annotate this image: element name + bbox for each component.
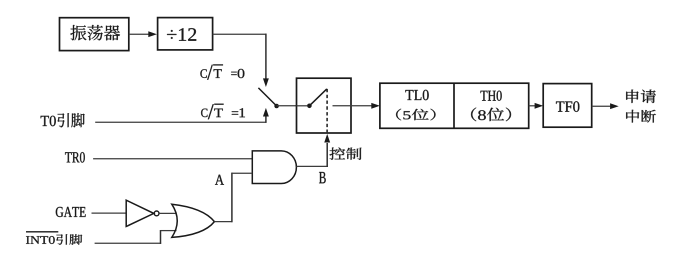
arrowhead to interrupt request — [610, 103, 619, 109]
wire TH0 to TF0 — [529, 105, 535, 107]
oscillator label 振荡器 — [70, 25, 120, 40]
wire INT0 step to OR gate — [161, 230, 177, 232]
wire AND output to B corner — [296, 165, 328, 167]
inner switch lever — [309, 89, 326, 106]
arrowhead up into control box (控制) — [324, 134, 330, 143]
label GATE — [56, 207, 86, 217]
wire T0 pin — [95, 121, 266, 123]
overline on T (C/T=1) — [214, 103, 224, 105]
label 中断 — [626, 110, 656, 123]
wire A corner to AND input — [232, 172, 252, 174]
wire divider to switch (horizontal) — [213, 33, 267, 35]
NOT gate bubble — [154, 211, 159, 216]
dashed control line — [326, 89, 328, 132]
oscillator box 振荡器 — [60, 18, 129, 51]
wire oscillator to divider — [129, 33, 149, 35]
wire inside box left — [297, 105, 308, 107]
label 1 (C/T=1) — [240, 108, 245, 117]
flag box TF0 — [543, 84, 592, 128]
wire INT0 riser — [160, 230, 162, 244]
inner switch dot — [307, 104, 312, 109]
register box TL0/TH0 — [380, 83, 529, 128]
switch lever (counter select) — [258, 88, 276, 106]
label T0引脚 — [41, 113, 85, 127]
label T (C/T=1) — [214, 109, 223, 118]
wire TR0 to AND gate — [93, 158, 252, 160]
label 0 (C/T=0) — [238, 69, 245, 78]
arrowhead into divider box — [148, 31, 157, 37]
label = (C/T=1) — [232, 111, 238, 114]
divider box ÷12 — [158, 18, 213, 50]
NOT gate triangle — [126, 200, 154, 226]
wire pivot to control box — [277, 105, 297, 107]
arrowhead into TF0 — [535, 103, 544, 109]
wire inside box right — [333, 105, 352, 107]
label / (C/T=0) — [207, 65, 213, 80]
label T (C/T=0) — [214, 69, 222, 78]
label TF0 — [556, 101, 579, 112]
label 控制 — [330, 148, 362, 160]
AND gate — [252, 151, 296, 184]
wire OR output to A corner — [214, 221, 232, 223]
label A — [215, 175, 224, 185]
wire NOT to OR gate — [159, 212, 176, 214]
overline on INT0 — [26, 231, 58, 233]
control switch box — [297, 78, 352, 133]
label INT0引脚 — [26, 234, 82, 245]
overline on T (C/T=0) — [213, 64, 223, 66]
label = (C/T=0) — [231, 72, 237, 75]
label B — [319, 172, 326, 183]
label （5位） — [396, 109, 435, 121]
label TL0 — [405, 90, 428, 100]
wire GATE to NOT gate — [92, 212, 127, 214]
label C (C/T=1) — [201, 109, 207, 118]
label / (C/T=1) — [208, 104, 214, 119]
arrowhead into TL0 — [371, 103, 380, 109]
wire INT0 to OR gate — [95, 242, 162, 244]
arrowhead up to C/T=1 contact — [263, 108, 269, 117]
divider label ÷12 — [167, 28, 196, 41]
label C (C/T=0) — [200, 69, 206, 78]
wire B corner riser (to 控制 arrow) — [326, 143, 328, 167]
arrowhead down to C/T=0 contact — [263, 78, 269, 87]
wire A riser — [231, 173, 233, 223]
OR gate — [172, 204, 215, 237]
divider between TL0 and TH0 — [453, 83, 455, 128]
label TH0 — [481, 91, 502, 101]
wire T0 pin riser — [265, 116, 267, 123]
wire divider to switch (vertical) — [265, 34, 267, 79]
label （8位） — [471, 108, 511, 122]
label 申请 — [626, 90, 656, 103]
label TR0 — [65, 152, 85, 163]
switch pivot dot — [274, 104, 279, 109]
wire TF0 to interrupt — [592, 105, 611, 107]
wire box to TL0 — [351, 105, 372, 107]
